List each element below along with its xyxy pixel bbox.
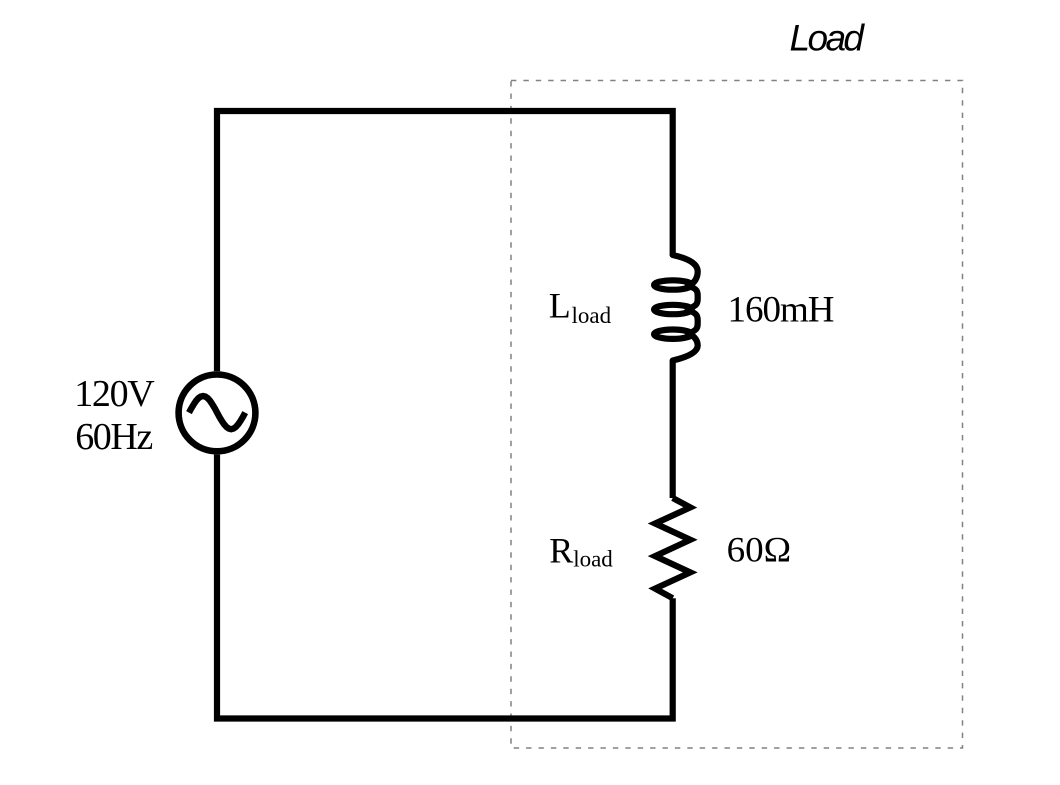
svg-text:load: load [572, 303, 612, 328]
reference designator Lload [549, 285, 612, 327]
load boundary dashed box [511, 81, 963, 749]
AC source V1 sine glyph [189, 396, 245, 429]
wire: right drop from resistor, bottom run, left riser to source [217, 455, 673, 719]
svg-text:60Hz: 60Hz [75, 416, 153, 458]
svg-text:60Ω: 60Ω [727, 529, 792, 569]
inductor Lload (helical coil) [654, 255, 698, 361]
resistor Rload (zigzag) [655, 498, 690, 598]
svg-text:Load: Load [790, 18, 866, 59]
svg-text:R: R [549, 530, 573, 570]
wire: inductor to resistor [670, 361, 676, 499]
reference designator Rload [549, 530, 613, 571]
svg-text:120V: 120V [74, 373, 155, 415]
wire: left riser from source up, top run, right drop to inductor [217, 111, 673, 371]
svg-text:160mH: 160mH [728, 290, 835, 331]
svg-text:L: L [549, 285, 571, 325]
AC source V1 circle body [179, 375, 256, 452]
svg-text:load: load [573, 547, 613, 572]
